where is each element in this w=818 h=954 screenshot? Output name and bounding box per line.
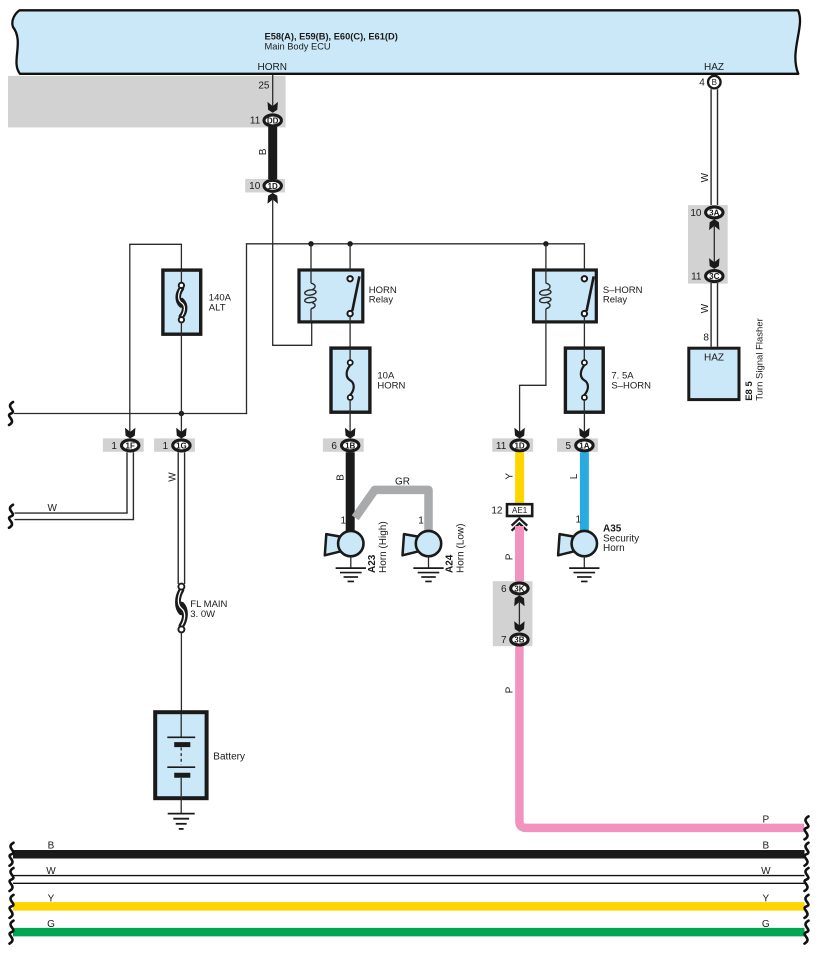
wire 3A to 3C (713, 225, 715, 264)
svg-text:11: 11 (250, 116, 261, 127)
svg-text:P: P (762, 814, 769, 825)
arrow below 3A (709, 219, 719, 230)
connector 3K pin 6 (493, 581, 533, 646)
svg-text:Turn Signal Flasher: Turn Signal Flasher (755, 318, 766, 401)
arrow above 3B (514, 621, 524, 632)
svg-text:1G: 1G (176, 442, 187, 451)
svg-text:HAZ: HAZ (704, 62, 724, 73)
svg-text:1: 1 (340, 515, 346, 526)
svg-text:4: 4 (699, 78, 705, 89)
svg-text:Horn (Low): Horn (Low) (456, 524, 467, 573)
wire battery to ground (180, 798, 182, 814)
bus bar Y (yellow) (13, 902, 805, 911)
wire GR horn high to horn low (355, 490, 428, 531)
relay S-HORN Relay (534, 270, 597, 322)
svg-text:AE1: AE1 (512, 506, 528, 515)
svg-text:3A: 3A (709, 209, 719, 218)
svg-text:8: 8 (703, 333, 709, 344)
arrow below 3K (514, 595, 524, 606)
svg-text:HORN: HORN (377, 380, 405, 391)
svg-text:11: 11 (691, 272, 702, 283)
s-horn relay switch (587, 276, 594, 311)
svg-text:6: 6 (501, 584, 507, 595)
wire main feed bus (246, 243, 585, 245)
svg-text:B: B (258, 148, 269, 155)
svg-text:1: 1 (418, 515, 424, 526)
svg-text:GR: GR (395, 476, 410, 487)
wire horn relay switch to 10A fuse (349, 316, 351, 348)
svg-text:E8 5: E8 5 (744, 381, 755, 401)
svg-text:W: W (761, 866, 771, 877)
wire FL MAIN to battery (180, 632, 182, 712)
Main Body ECU band E58(A),E59(B),E60(C),E61(D) (12, 10, 800, 74)
arrow into connector 1D from below (268, 193, 278, 204)
svg-text:E58(A), E59(B), E60(C), E61(D): E58(A), E59(B), E60(C), E61(D) (265, 32, 398, 42)
svg-text:3K: 3K (514, 585, 524, 594)
svg-text:B: B (712, 78, 717, 87)
wire 1D down to horn relay coil (272, 199, 274, 346)
fuse 10A HORN (331, 348, 370, 412)
svg-text:6: 6 (331, 441, 337, 452)
svg-text:W: W (46, 866, 56, 877)
wire 7.5A fuse to 1A (583, 412, 585, 433)
connector 1A pin 5 (579, 428, 589, 439)
connector 1G pin 1 (176, 428, 186, 439)
svg-text:25: 25 (258, 81, 270, 92)
wire L 1A to A35 (580, 452, 589, 532)
break in W wire at left (9, 505, 13, 528)
svg-text:W: W (168, 472, 179, 482)
svg-text:3B: 3B (514, 636, 524, 645)
wire B (black) DD to 1D (268, 127, 277, 180)
break in feed wire at left (9, 402, 13, 425)
arrow into connector DD (268, 102, 278, 113)
wire W 1G to FL MAIN (177, 452, 179, 584)
wire W from 1F to left break (126, 452, 128, 513)
svg-text:W: W (700, 172, 711, 182)
wire s-horn coil to 1D (545, 323, 547, 386)
turn signal flasher E85 HAZ (689, 348, 739, 399)
svg-text:10: 10 (690, 208, 702, 219)
fusible link FL MAIN 3.0W (178, 590, 181, 612)
svg-text:L: L (569, 473, 580, 479)
connector B pin 4 (ECU HAZ) (708, 76, 721, 89)
arrow above 3C (709, 258, 719, 269)
svg-text:1: 1 (575, 514, 581, 525)
svg-text:10: 10 (249, 181, 261, 192)
horn relay coil (310, 270, 312, 283)
wire W B to 3A (710, 89, 712, 205)
relay HORN Relay (299, 270, 363, 322)
svg-text:B: B (48, 840, 55, 851)
bus bar B (black) (13, 850, 805, 859)
ground battery (168, 813, 195, 815)
wire 10A fuse to 1B (349, 412, 351, 433)
svg-text:DD: DD (267, 117, 279, 126)
horn relay switch (352, 276, 359, 311)
node junction horn relay switch (347, 241, 352, 246)
wire ALT to 1G (180, 336, 182, 433)
svg-text:Y: Y (762, 894, 769, 905)
wire B 1B to horn A23 (346, 452, 355, 532)
connector 1D pin 10 (245, 179, 285, 192)
wire s-horn relay switch to 7.5A fuse (583, 316, 585, 348)
svg-text:1F: 1F (126, 442, 135, 451)
fuse 7.5A S-HORN (565, 348, 603, 412)
svg-text:1: 1 (111, 441, 117, 452)
svg-text:1B: 1B (345, 442, 355, 451)
svg-text:Relay: Relay (369, 295, 394, 306)
wire 3K to 3B (518, 601, 520, 626)
svg-text:Horn (High): Horn (High) (378, 521, 389, 573)
svg-text:Battery: Battery (213, 752, 245, 763)
svg-text:1D: 1D (514, 442, 524, 451)
wire W 3C to HAZ flasher (710, 283, 712, 347)
svg-text:P: P (504, 686, 515, 693)
connector DD pin 11 (264, 115, 281, 126)
svg-text:W: W (700, 303, 711, 313)
svg-text:Y: Y (505, 473, 516, 480)
break in P wire at right (805, 816, 809, 839)
svg-text:ALT: ALT (209, 302, 226, 313)
svg-text:P: P (504, 553, 515, 560)
wire P 3B to bottom bus (519, 647, 804, 828)
fusible link 140A ALT (163, 270, 201, 334)
svg-text:W: W (47, 503, 57, 514)
svg-text:HAZ: HAZ (704, 352, 724, 363)
svg-text:Horn: Horn (603, 543, 625, 554)
junction chevrons below AE1 (512, 518, 528, 525)
ground horn A23 (336, 567, 366, 569)
svg-text:5: 5 (566, 441, 572, 452)
svg-text:HORN: HORN (257, 62, 286, 73)
wire P AE1 to 3K (515, 526, 524, 582)
ground horn A24 (413, 567, 443, 569)
svg-text:7: 7 (501, 635, 507, 646)
connector 3C pin 11 (706, 271, 723, 282)
svg-text:1: 1 (163, 441, 169, 452)
node junction horn relay coil (308, 241, 313, 246)
svg-text:Main Body ECU: Main Body ECU (265, 42, 331, 52)
svg-text:Relay: Relay (603, 295, 628, 306)
svg-text:Y: Y (48, 894, 55, 905)
svg-text:12: 12 (491, 505, 503, 516)
harness shade region (8, 76, 286, 128)
svg-text:1A: 1A (579, 442, 589, 451)
svg-text:A24: A24 (445, 554, 456, 573)
svg-text:1D: 1D (268, 182, 278, 191)
connector 1D pin 11 (514, 428, 524, 439)
wire Y 1D to AE1 (515, 452, 524, 503)
svg-text:A23: A23 (367, 554, 378, 573)
node junction s-horn relay coil (543, 241, 548, 246)
s-horn relay coil (545, 270, 547, 283)
node junction at ALT feed (179, 411, 184, 416)
svg-text:3. 0W: 3. 0W (190, 609, 215, 620)
wire 1F/1G upper link (129, 243, 182, 245)
wire from ECU HORN pin 25 (272, 75, 274, 107)
svg-text:G: G (762, 919, 770, 930)
connector 3A pin 10 (688, 205, 728, 284)
ground horn A35 (569, 567, 599, 569)
svg-text:G: G (47, 919, 55, 930)
bus bar G (green) (13, 928, 805, 937)
svg-text:B: B (762, 840, 769, 851)
connector 1B pin 6 (345, 428, 355, 439)
svg-text:3C: 3C (709, 272, 719, 281)
connector 1F pin 1 (125, 428, 135, 439)
connector AE1 pin 12 (507, 504, 532, 516)
bus bar W (white) (13, 875, 805, 877)
svg-text:B: B (336, 474, 347, 481)
connector 3B pin 7 (511, 634, 528, 645)
battery (155, 712, 206, 798)
svg-text:S–HORN: S–HORN (611, 380, 651, 391)
svg-text:11: 11 (496, 441, 507, 452)
